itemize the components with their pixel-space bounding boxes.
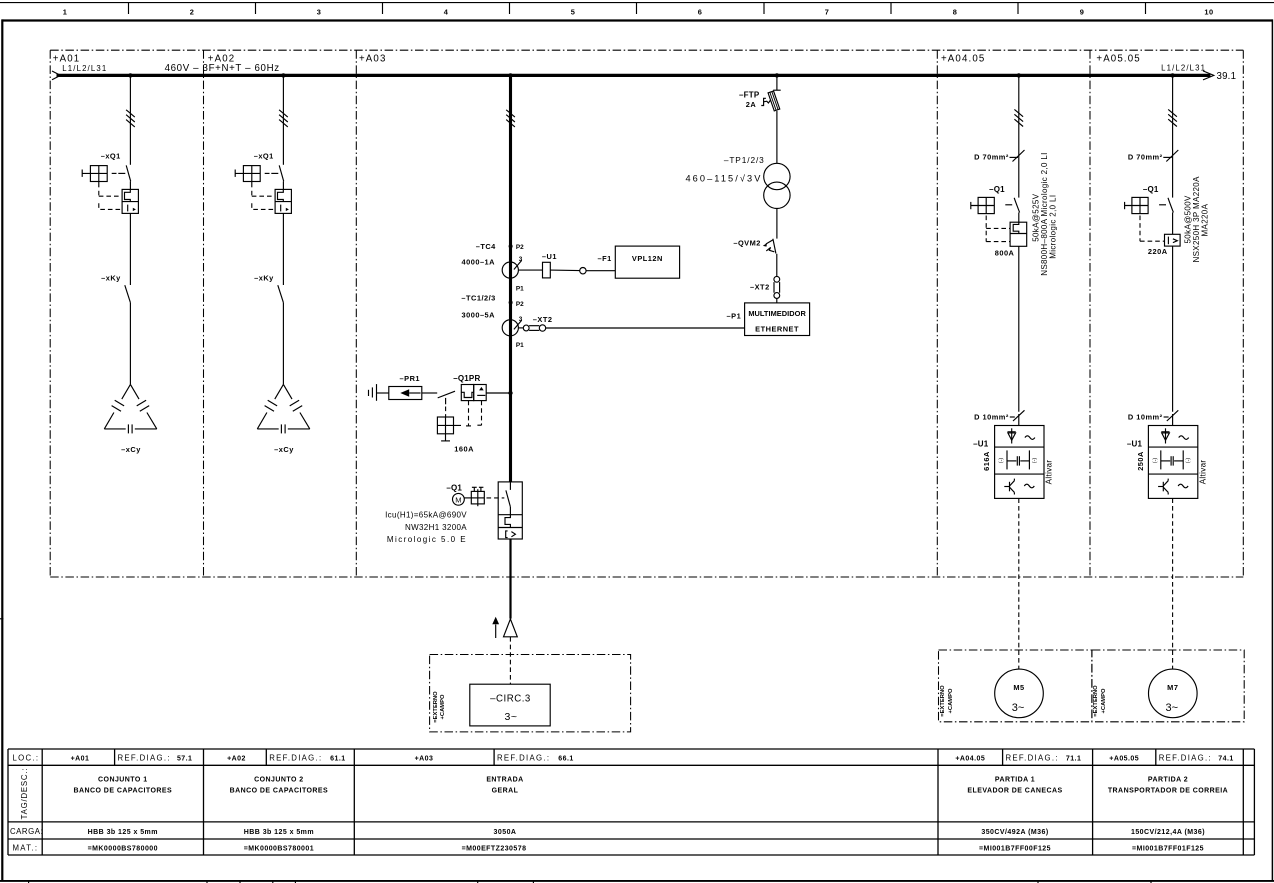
- svg-text:–U1: –U1: [1127, 439, 1143, 448]
- svg-text:M7: M7: [1167, 683, 1178, 692]
- wire QVM2 to XT2: [776, 254, 778, 277]
- svg-text:+A04.05: +A04.05: [941, 54, 985, 65]
- svg-text:–xKy: –xKy: [254, 273, 274, 282]
- wire A01 drop: [129, 77, 131, 165]
- svg-text:220A: 220A: [1148, 247, 1168, 256]
- svg-text:–P1: –P1: [727, 311, 742, 320]
- svg-text:ETHERNET: ETHERNET: [755, 325, 799, 334]
- svg-text:–QVM2: –QVM2: [733, 238, 761, 247]
- svg-text:P2: P2: [516, 244, 524, 251]
- svg-text:150CV/212,4A (M36): 150CV/212,4A (M36): [1131, 829, 1205, 836]
- svg-text:REF.DIAG.:: REF.DIAG.:: [497, 754, 550, 763]
- 3-phase slashes A01: [126, 110, 135, 127]
- relay F1 VPL12N: [598, 246, 680, 278]
- svg-text:3~: 3~: [1166, 702, 1179, 714]
- svg-text:+A01: +A01: [53, 54, 81, 65]
- junction A03 tap: [508, 73, 512, 77]
- wire A05 drop: [1172, 77, 1174, 198]
- svg-text:5: 5: [571, 8, 576, 17]
- svg-text:–xCy: –xCy: [121, 445, 141, 454]
- load CIRC.3: [470, 684, 550, 726]
- svg-text:800A: 800A: [995, 249, 1015, 258]
- svg-text:+A01: +A01: [71, 756, 90, 763]
- svg-text:–TP1/2/3: –TP1/2/3: [724, 155, 765, 165]
- svg-text:REF.DIAG.:: REF.DIAG.:: [1006, 754, 1059, 763]
- current transformer TC4: [462, 242, 525, 292]
- junction A04 tap: [1017, 73, 1021, 77]
- 3-phase slashes A05: [1168, 109, 1177, 126]
- field zone EXTERNO (A04): [939, 650, 1092, 722]
- svg-text:–TC1/2/3: –TC1/2/3: [461, 293, 495, 302]
- svg-text:4: 4: [444, 8, 449, 17]
- svg-text:PARTIDA 2: PARTIDA 2: [1148, 776, 1188, 783]
- svg-text:Micrologic 5.0 E: Micrologic 5.0 E: [387, 535, 467, 544]
- svg-text:=EXTERNO: =EXTERNO: [1093, 685, 1099, 717]
- switch QVM2: [733, 238, 776, 253]
- svg-text:P1: P1: [516, 342, 524, 349]
- svg-text:2A: 2A: [746, 100, 757, 109]
- svg-text:+A05.05: +A05.05: [1096, 54, 1140, 65]
- svg-text:–Q1PR: –Q1PR: [453, 374, 480, 383]
- dashed wire to field: [509, 637, 511, 684]
- enclosure zone boxes: [50, 50, 1243, 577]
- svg-text:GERAL: GERAL: [492, 788, 519, 795]
- svg-text:6: 6: [698, 8, 703, 17]
- wire A02 drop: [282, 77, 284, 165]
- svg-text:–XT2: –XT2: [533, 315, 553, 324]
- svg-text:TRANSPORTADOR DE CORREIA: TRANSPORTADOR DE CORREIA: [1108, 788, 1228, 795]
- motor M7: [1149, 669, 1198, 718]
- node P2 (TC1/2/3): [509, 301, 513, 305]
- svg-text:M: M: [455, 495, 461, 504]
- svg-text:=MK0000BS780001: =MK0000BS780001: [244, 845, 314, 852]
- svg-text:+A02: +A02: [227, 756, 246, 763]
- svg-text:BANCO DE CAPACITORES: BANCO DE CAPACITORES: [230, 788, 329, 795]
- svg-text:D 10mm²: D 10mm²: [974, 412, 1009, 421]
- wire A04 drop: [1018, 77, 1020, 198]
- svg-text:61.1: 61.1: [330, 756, 345, 763]
- fuse FTP: [739, 90, 781, 111]
- fuse-switch Q1PR: [437, 374, 509, 453]
- capacitor bank xCy delta (A02): [257, 384, 310, 433]
- svg-text:REF.DIAG.:: REF.DIAG.:: [1159, 754, 1212, 763]
- row TAG/DESC: [20, 768, 1228, 820]
- feeder A01 capacitor bank: [82, 77, 157, 454]
- breaker xQ1 (A02): [235, 152, 291, 214]
- svg-text:CONJUNTO 1: CONJUNTO 1: [98, 776, 148, 783]
- junction A02 tap: [281, 73, 285, 77]
- svg-text:+CAMPO: +CAMPO: [948, 688, 954, 713]
- svg-text:–Q1: –Q1: [446, 484, 462, 493]
- svg-text:10: 10: [1204, 8, 1213, 17]
- svg-text:TAG/DESC.:: TAG/DESC.:: [20, 768, 29, 820]
- feeder A02 capacitor bank: [235, 77, 310, 454]
- 3-phase slashes A04: [1014, 109, 1023, 126]
- busbar L1/L2/L31: [52, 63, 1236, 82]
- dashed wire drive to motor (A05): [1172, 498, 1174, 669]
- svg-text:CONJUNTO 2: CONJUNTO 2: [254, 776, 304, 783]
- svg-text:=M00EFTZ230578: =M00EFTZ230578: [462, 845, 527, 852]
- svg-text:ELEVADOR DE CANECAS: ELEVADOR DE CANECAS: [967, 788, 1062, 795]
- capacitor bank xCy delta: [104, 384, 157, 433]
- svg-text:CARGA:: CARGA:: [10, 827, 43, 836]
- A03 main vertical bus: [509, 75, 512, 482]
- svg-text:9: 9: [1080, 8, 1085, 17]
- svg-text:350CV/492A (M36): 350CV/492A (M36): [981, 829, 1048, 836]
- svg-text:+CAMPO: +CAMPO: [1101, 688, 1107, 713]
- svg-text:–PR1: –PR1: [400, 374, 421, 383]
- cable D 70mm2 (A05): [1128, 150, 1178, 162]
- svg-text:D 10mm²: D 10mm²: [1128, 412, 1163, 421]
- current transformer TC1/2/3: [461, 293, 524, 349]
- field zone EXTERNO (A05): [1092, 650, 1244, 722]
- svg-text:Altivar: Altivar: [1199, 460, 1208, 485]
- contactor xKy: [101, 273, 130, 302]
- svg-text:(-): (-): [1032, 458, 1038, 464]
- svg-text:MA220A: MA220A: [1200, 203, 1209, 236]
- svg-text:VPL12N: VPL12N: [632, 254, 663, 263]
- svg-text:–TC4: –TC4: [476, 242, 496, 251]
- svg-text:460V – 3F+N+T – 60Hz: 460V – 3F+N+T – 60Hz: [165, 63, 280, 74]
- svg-text:–U1: –U1: [542, 252, 557, 261]
- svg-text:3000–5A: 3000–5A: [462, 311, 496, 320]
- svg-text:–Q1: –Q1: [989, 185, 1005, 194]
- svg-text:–CIRC.3: –CIRC.3: [490, 694, 531, 705]
- motor M5: [995, 669, 1044, 718]
- svg-text:160A: 160A: [454, 444, 474, 453]
- svg-text:460–115/√3V: 460–115/√3V: [685, 173, 762, 183]
- svg-text:D 70mm²: D 70mm²: [974, 152, 1009, 161]
- breaker xQ1: [82, 152, 138, 214]
- breaker Q1 (A05): [1125, 176, 1210, 263]
- svg-text:(-): (-): [999, 458, 1005, 464]
- svg-text:8: 8: [953, 8, 958, 17]
- svg-text:=MI001B7FF00F125: =MI001B7FF00F125: [979, 845, 1051, 852]
- svg-text:–XT2: –XT2: [750, 283, 770, 292]
- svg-text:MAT.:: MAT.:: [13, 843, 39, 852]
- wire breaker to contactor: [129, 213, 131, 285]
- svg-text:57.1: 57.1: [177, 756, 192, 763]
- svg-text:P1: P1: [516, 285, 524, 292]
- svg-text:=EXTERNO: =EXTERNO: [940, 685, 946, 717]
- svg-text:P2: P2: [516, 301, 524, 308]
- drive U1 Altivar (A04): [973, 426, 1054, 499]
- cable D 70mm2 (A04): [974, 150, 1024, 162]
- 3-phase slashes A02: [279, 110, 288, 127]
- svg-text:Micrologic 2,0 LI: Micrologic 2,0 LI: [1048, 195, 1057, 259]
- row LOC: [13, 754, 1234, 763]
- svg-text:71.1: 71.1: [1066, 756, 1081, 763]
- transducer U1: [518, 252, 615, 278]
- svg-text:–F1: –F1: [598, 254, 612, 263]
- svg-text:616A: 616A: [982, 451, 991, 471]
- flow arrow: [492, 617, 499, 638]
- svg-text:250A: 250A: [1136, 451, 1145, 471]
- terminal XT2 (voltage): [750, 276, 780, 303]
- svg-text:BANCO DE CAPACITORES: BANCO DE CAPACITORES: [74, 788, 173, 795]
- svg-text:Icu(H1)=65kA@690V: Icu(H1)=65kA@690V: [385, 511, 467, 520]
- contactor xKy (A02): [254, 273, 283, 302]
- svg-text:1: 1: [63, 8, 68, 17]
- svg-text:(-): (-): [1186, 458, 1192, 464]
- row CARGA: [10, 827, 1205, 836]
- transformer TP1/2/3: [685, 155, 790, 208]
- svg-text:–xKy: –xKy: [101, 273, 121, 282]
- svg-text:74.1: 74.1: [1218, 756, 1233, 763]
- svg-text:+A04.05: +A04.05: [955, 756, 985, 763]
- svg-text:7: 7: [825, 8, 830, 17]
- svg-text:+CAMPO: +CAMPO: [440, 694, 446, 719]
- svg-text:=EXTERNO: =EXTERNO: [433, 691, 439, 723]
- svg-text:REF.DIAG.:: REF.DIAG.:: [269, 754, 322, 763]
- node Q1PR junction: [508, 391, 512, 395]
- cable D 10mm2 (A04): [974, 410, 1024, 421]
- svg-text:=MI001B7FF01F125: =MI001B7FF01F125: [1132, 845, 1204, 852]
- field zone EXTERNO (A03): [430, 655, 631, 732]
- svg-text:2: 2: [190, 8, 195, 17]
- wire fuse to transformer: [776, 111, 778, 163]
- svg-text:HBB 3b 125 x 5mm: HBB 3b 125 x 5mm: [244, 829, 314, 836]
- svg-text:Altivar: Altivar: [1045, 460, 1054, 485]
- svg-text:–FTP: –FTP: [739, 91, 760, 100]
- svg-text:L1/L2/L31: L1/L2/L31: [1161, 64, 1206, 73]
- svg-text:+A03: +A03: [415, 756, 434, 763]
- svg-text:=MK0000BS780000: =MK0000BS780000: [88, 845, 158, 852]
- svg-text:–Q1: –Q1: [1143, 185, 1159, 194]
- location table: [8, 749, 1254, 855]
- feeder A04 partida 1: [939, 77, 1092, 722]
- dashed wire drive to motor (A04): [1018, 498, 1020, 669]
- wire Q1 to feeder exit: [509, 539, 511, 619]
- breaker Q1 (A04): [971, 152, 1058, 276]
- svg-text:3~: 3~: [505, 711, 518, 723]
- exit triangle: [504, 619, 518, 637]
- svg-text:LOC.:: LOC.:: [13, 754, 40, 763]
- svg-text:M5: M5: [1013, 683, 1024, 692]
- surge arrester branch PR1: [369, 374, 438, 401]
- svg-text:PARTIDA 1: PARTIDA 1: [995, 776, 1035, 783]
- svg-text:(-): (-): [1152, 458, 1158, 464]
- svg-text:–xCy: –xCy: [274, 445, 294, 454]
- svg-text:REF.DIAG.:: REF.DIAG.:: [118, 754, 171, 763]
- node P2 (TC4): [509, 244, 513, 248]
- svg-text:39.1: 39.1: [1217, 71, 1237, 82]
- svg-text:3: 3: [317, 8, 322, 17]
- terminal XT2 (metering): [518, 315, 552, 331]
- svg-text:+A03: +A03: [359, 54, 387, 65]
- svg-text:NW32H1 3200A: NW32H1 3200A: [405, 523, 467, 532]
- svg-text:HBB 3b 125 x 5mm: HBB 3b 125 x 5mm: [88, 829, 158, 836]
- junction A05 tap: [1170, 73, 1174, 77]
- main breaker Q1: [385, 482, 522, 544]
- wire contactor to capacitor (A02): [282, 303, 284, 385]
- wire XT2 to P1 meter: [546, 327, 745, 329]
- wire transformer to QVM2: [776, 209, 778, 239]
- wire breaker to contactor (A02): [282, 213, 284, 285]
- multimeter P1: [727, 303, 810, 336]
- svg-text:–xQ1: –xQ1: [254, 152, 274, 161]
- wire contactor to capacitor: [129, 303, 131, 385]
- metering branch wire: [776, 77, 778, 90]
- svg-text:–xQ1: –xQ1: [101, 152, 121, 161]
- svg-text:ENTRADA: ENTRADA: [486, 776, 523, 783]
- svg-text:3~: 3~: [1012, 702, 1025, 714]
- wire Q1 to drive (A04): [1018, 246, 1020, 411]
- drive U1 Altivar (A05): [1127, 426, 1208, 499]
- feeder A05 partida 2: [1092, 77, 1244, 722]
- svg-text:D 70mm²: D 70mm²: [1128, 152, 1163, 161]
- row MAT: [13, 843, 1204, 852]
- junction A01 tap: [128, 73, 132, 77]
- svg-text:66.1: 66.1: [558, 756, 573, 763]
- cable D 10mm2 (A05): [1128, 410, 1178, 421]
- 3-phase slashes A03: [506, 110, 515, 127]
- svg-text:4000–1A: 4000–1A: [462, 257, 496, 266]
- svg-text:3050A: 3050A: [494, 829, 517, 836]
- wire Q1 to drive (A05): [1172, 246, 1174, 412]
- svg-text:–U1: –U1: [973, 439, 989, 448]
- svg-text:L1/L2/L31: L1/L2/L31: [62, 64, 107, 73]
- svg-text:MULTIMEDIDOR: MULTIMEDIDOR: [748, 309, 806, 318]
- junction FTP tap: [775, 73, 779, 77]
- svg-text:+A05.05: +A05.05: [1109, 756, 1139, 763]
